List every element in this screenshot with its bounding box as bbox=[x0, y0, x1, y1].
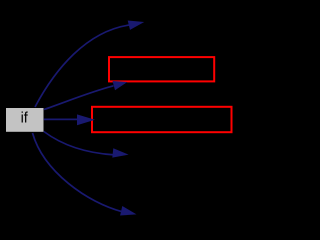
svg-text:if: if bbox=[21, 111, 29, 127]
wire edge5 (if to bottom node) bbox=[33, 133, 123, 212]
wire edge3 (if to node N2) bbox=[44, 118, 81, 120]
wire edge1 (if to top node) bbox=[35, 25, 131, 107]
arrowhead edge5 bbox=[120, 206, 136, 216]
arrowhead edge3 bbox=[77, 114, 95, 125]
node N2 (red truncated box, middle right) bbox=[92, 107, 232, 132]
arrowhead edge4 bbox=[112, 148, 128, 157]
arrowhead edge1 bbox=[128, 21, 145, 30]
wire edge4 (if to lower node) bbox=[44, 132, 115, 155]
node N1 (red truncated box, top right) bbox=[109, 57, 214, 81]
wire edge2 (if to node N1) bbox=[44, 86, 114, 110]
arrowhead edge2 bbox=[113, 81, 128, 90]
node if (gray source box) bbox=[6, 108, 44, 132]
